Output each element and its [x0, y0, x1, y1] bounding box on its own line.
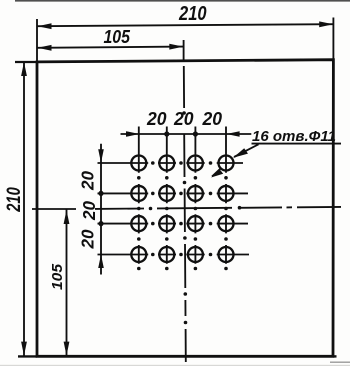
- svg-text:210: 210: [4, 187, 25, 213]
- dim line 210 left: [23, 62, 25, 356]
- left 210 arrows: [21, 62, 27, 76]
- leader to hole: shelf + diagonals: [212, 144, 341, 177]
- dim line 105 left: [66, 210, 68, 356]
- svg-text:20: 20: [77, 229, 97, 249]
- bottom edge extended left: [18, 355, 37, 357]
- horizontal centerline left extension: [32, 208, 76, 210]
- svg-text:20: 20: [202, 108, 223, 129]
- svg-text:105: 105: [50, 263, 66, 290]
- svg-text:210: 210: [178, 3, 206, 25]
- top edge extended left: [15, 61, 37, 63]
- scan border top: [15, 0, 350, 1]
- scan border bottom faint: [330, 362, 350, 363]
- column line dots: [137, 176, 228, 270]
- centerline dots: [149, 111, 242, 324]
- svg-text:20: 20: [173, 108, 194, 129]
- svg-text:20: 20: [146, 108, 167, 129]
- dim line 210 top: [38, 24, 334, 26]
- svg-text:20: 20: [79, 201, 99, 221]
- bottom edge extended right: [333, 355, 337, 357]
- row line dots: [151, 161, 212, 256]
- main vertical centerline dash-dot: [184, 66, 186, 362]
- dim line 105 top: [38, 47, 184, 48]
- column centerlines / extension lines: [139, 127, 226, 264]
- top 210 arrows: [38, 23, 52, 29]
- svg-text:16 отв.Ф11: 16 отв.Ф11: [252, 128, 336, 145]
- hole grid: cols 138.8 166.8 195.4 226.0 ; rows 163 193.4 223.6 254.5: [131, 156, 233, 263]
- left 105 arrows: [64, 210, 70, 224]
- plate outline: [37, 60, 333, 357]
- main horizontal centerline dash-dot: [95, 207, 341, 209]
- horizontal chain dim 20x3: [121, 133, 252, 135]
- extension line right of 210 dim: [332, 18, 334, 60]
- row centerlines: [98, 163, 250, 255]
- extension line left of 210 dim: [36, 19, 38, 62]
- top 105 arrows: [38, 45, 52, 51]
- vertical chain dim 20x3: [100, 144, 102, 275]
- svg-text:105: 105: [103, 27, 130, 47]
- centerline extension above plate: [183, 40, 185, 62]
- svg-text:20: 20: [77, 171, 97, 191]
